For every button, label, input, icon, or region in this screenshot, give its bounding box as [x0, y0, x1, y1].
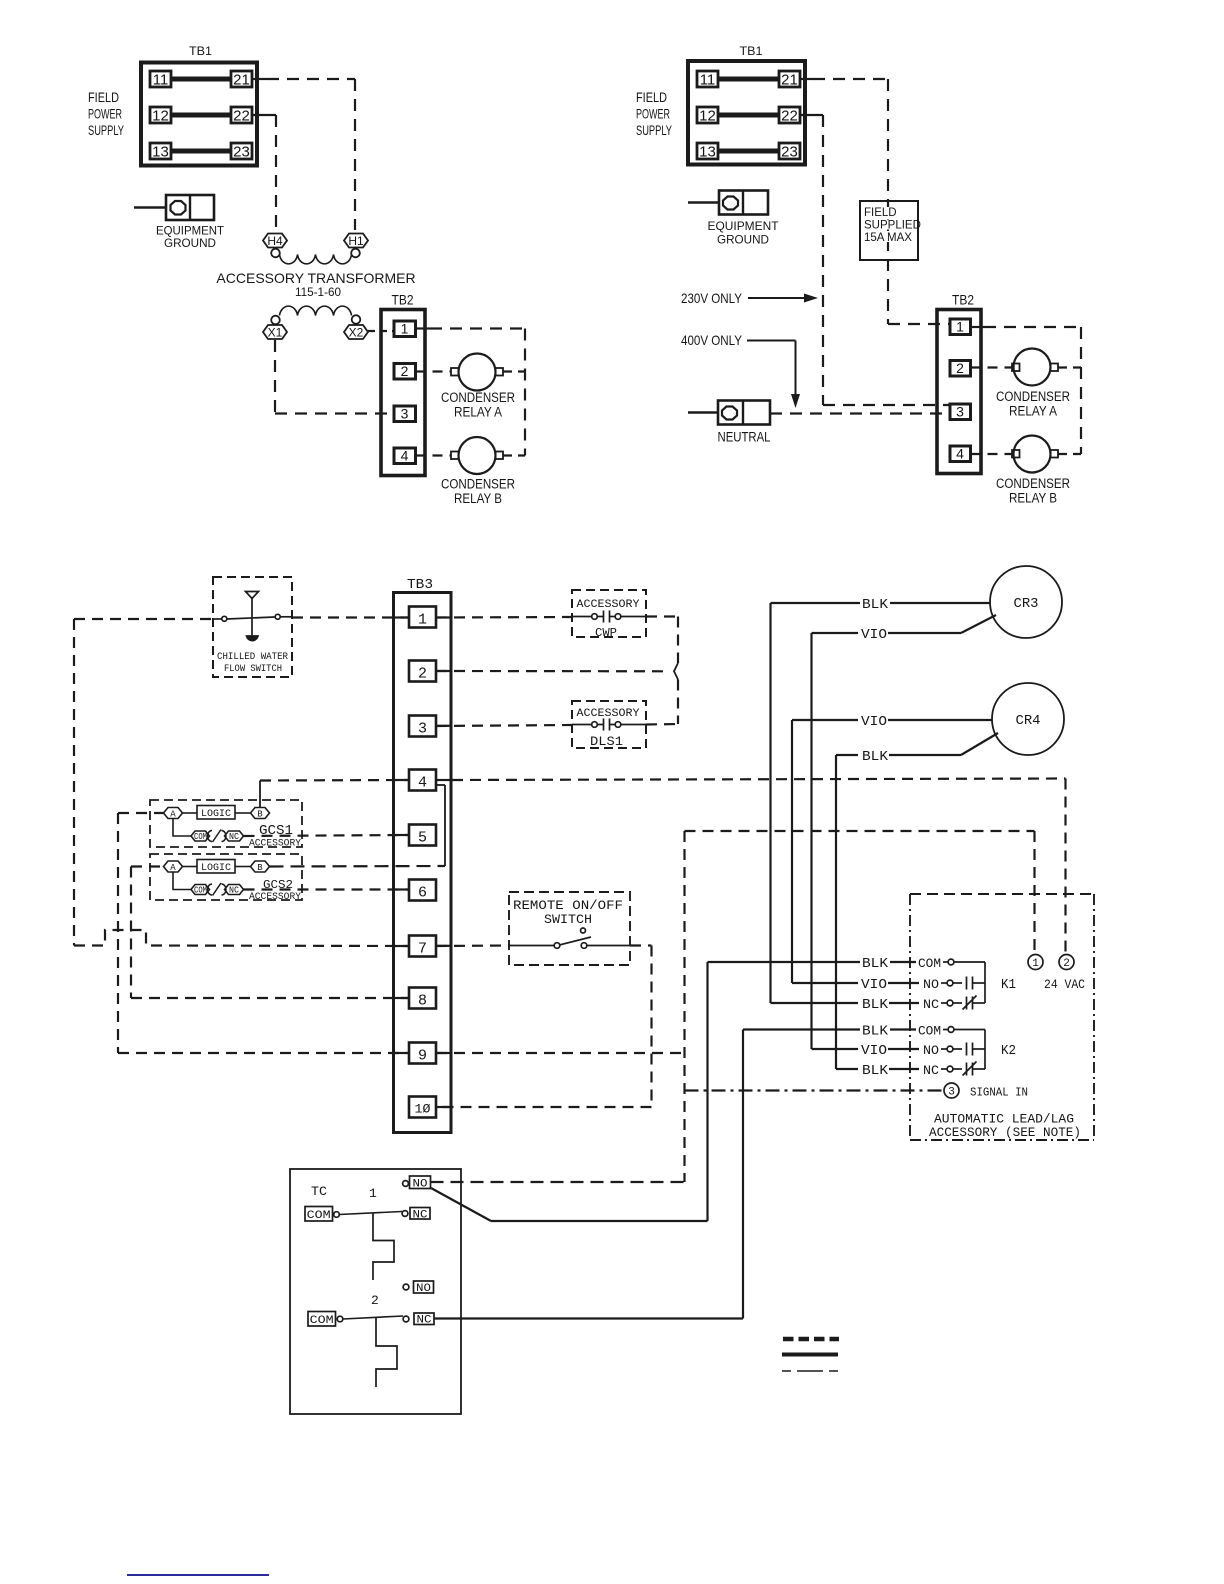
relay coil CR4: [992, 683, 1064, 755]
riser BLK CR3 to K1-NC: [769, 603, 771, 1003]
svg-text:NC: NC: [413, 1210, 428, 1222]
svg-text:22: 22: [233, 108, 250, 125]
riser GCS2-A to TB3-8 (dashed): [130, 867, 132, 999]
wire DLS1 right to brace bus (dashed): [646, 723, 678, 726]
wire TB2-4 to condenser relay B coil (right): [971, 453, 1013, 455]
legend heavy dashed line: [783, 1337, 839, 1342]
TC stage 2 heater meander: [376, 1318, 397, 1388]
wire GCS1 NC row to TB3-5 (dashed): [244, 835, 410, 836]
wire BLK to CR4: [836, 733, 998, 755]
label CONDENSER RELAY B (left): [441, 477, 515, 507]
TB1 right terminal 12: [697, 107, 718, 125]
svg-text:9: 9: [418, 1048, 427, 1065]
svg-text:15A MAX: 15A MAX: [864, 232, 912, 244]
transformer secondary terminal X2: [344, 315, 368, 339]
riser VIO CR4 to K1-NO: [791, 720, 793, 983]
svg-text:NC: NC: [229, 832, 240, 842]
riser TC1-NO to K1-COM (solid): [706, 962, 708, 1221]
TB2 right terminal 1: [950, 319, 971, 335]
chilled water flow switch symbol: [213, 592, 292, 641]
svg-text:VIO: VIO: [861, 1043, 887, 1059]
TB1 right bus bar 11-21: [718, 77, 779, 82]
transformer secondary winding: [280, 306, 352, 315]
accessory CWP contact: [572, 611, 646, 623]
TC stage 2 blade: [343, 1316, 403, 1319]
svg-text:115-1-60: 115-1-60: [295, 285, 341, 299]
svg-text:23: 23: [233, 144, 250, 161]
wire TB3-1 to accessory CWP (dashed): [436, 616, 572, 619]
svg-text:FIELD: FIELD: [864, 207, 897, 219]
TB2 left terminal 3: [394, 406, 416, 422]
svg-text:VIO: VIO: [861, 714, 887, 730]
GCS2 crossed contact: [208, 883, 227, 896]
wire relay A to bus: [503, 370, 525, 372]
svg-text:12: 12: [699, 108, 716, 125]
TB3 terminal 9: [409, 1043, 436, 1065]
TB2 left terminal 4: [394, 448, 416, 464]
accessory CWP enclosure (dashed box): [572, 590, 646, 637]
TB1 left terminal 22: [231, 107, 252, 125]
automatic lead/lag accessory enclosure (dash-dot box): [910, 894, 1094, 1140]
label GCS2 ACCESSORY: [249, 878, 301, 903]
svg-text:1: 1: [369, 1186, 377, 1201]
TB2 right terminal 4: [950, 446, 971, 462]
svg-text:2: 2: [956, 360, 964, 376]
wire TB1-21 to H1 (dashed): [252, 79, 355, 230]
svg-text:12: 12: [152, 108, 169, 125]
svg-text:TB1: TB1: [740, 46, 763, 58]
svg-text:2: 2: [371, 1293, 379, 1308]
svg-text:CR4: CR4: [1016, 713, 1041, 729]
terminal block TB1 (left): [141, 46, 257, 166]
TB2 left terminal 1: [394, 321, 416, 337]
GCS1 COM hexagon: [191, 831, 210, 842]
svg-text:BLK: BLK: [862, 997, 889, 1013]
riser TB3-9 / signal-in / TC-NO1 (dashed): [683, 831, 685, 1182]
label EQUIPMENT GROUND (right): [708, 219, 780, 247]
wire VIO to CR4: [792, 719, 992, 721]
svg-text:CR3: CR3: [1014, 596, 1039, 612]
riser VIO CR3 to K2-NO: [810, 633, 812, 1049]
svg-text:FIELD: FIELD: [636, 89, 667, 105]
TB1 bus bar 11-21: [171, 77, 231, 82]
TB2 right terminal 3: [950, 404, 971, 420]
svg-text:ACCESSORY: ACCESSORY: [249, 892, 301, 903]
svg-text:K2: K2: [1001, 1043, 1016, 1059]
GCS1 A to COM link: [173, 819, 191, 837]
svg-text:RELAY B: RELAY B: [1009, 491, 1057, 506]
equipment ground symbol (left): [134, 195, 214, 220]
svg-text:NO: NO: [923, 1043, 939, 1058]
TB1 left terminal 12: [150, 107, 171, 125]
wire TB3-9 right to riser (dashed): [436, 1052, 685, 1054]
svg-text:ACCESSORY (SEE NOTE): ACCESSORY (SEE NOTE): [929, 1125, 1081, 1140]
K2 NO row: [812, 1043, 986, 1060]
svg-text:NC: NC: [229, 886, 240, 896]
svg-text:BLK: BLK: [862, 749, 889, 765]
svg-text:3: 3: [956, 404, 964, 420]
svg-text:NO: NO: [413, 1179, 428, 1191]
label CHILLED WATER FLOW SWITCH: [217, 652, 288, 675]
hyperlink underline (blue): [127, 1574, 269, 1576]
riser GCS1-A to TB3-9 (dashed): [117, 813, 119, 1053]
K1 contact bracket: [984, 962, 986, 1003]
svg-text:B: B: [257, 810, 263, 820]
label AUTOMATIC LEAD/LAG ACCESSORY (SEE NOTE): [929, 1112, 1081, 1141]
signal-in terminal 3 (circled): [944, 1083, 959, 1099]
svg-text:3: 3: [418, 721, 427, 738]
svg-text:COM: COM: [194, 886, 207, 896]
GCS2 terminal A hexagon: [164, 861, 183, 873]
TB1 right terminal 11: [697, 71, 718, 89]
svg-text:ACCESSORY: ACCESSORY: [249, 839, 301, 850]
solid stubs inside TB3 channel: [394, 618, 452, 1108]
svg-text:SUPPLY: SUPPLY: [636, 122, 672, 138]
svg-text:ACCESSORY TRANSFORMER: ACCESSORY TRANSFORMER: [216, 270, 415, 286]
svg-text:BLK: BLK: [862, 956, 889, 972]
svg-text:X2: X2: [349, 326, 364, 340]
label CONDENSER RELAY B (right): [996, 476, 1070, 506]
signal-in wire (dash-dot): [685, 1089, 945, 1091]
GCS2 accessory enclosure (dash-dot box): [150, 854, 302, 900]
svg-text:A: A: [170, 863, 176, 873]
svg-text:7: 7: [418, 941, 427, 958]
TC stage 1 blade: [339, 1212, 402, 1215]
svg-text:1Ø: 1Ø: [415, 1102, 431, 1117]
svg-text:RELAY A: RELAY A: [1009, 404, 1057, 419]
K1 NO row: [792, 977, 985, 994]
GCS1 NC hexagon: [225, 831, 244, 842]
thermostat TC enclosure: [290, 1169, 461, 1414]
svg-text:COM: COM: [307, 1210, 331, 1222]
wire relay A right to bus: [1058, 366, 1081, 368]
svg-text:21: 21: [233, 72, 250, 89]
svg-text:5: 5: [418, 830, 427, 847]
K2 COM row: [743, 1024, 985, 1040]
24VAC terminal 2 (circled): [1059, 955, 1074, 971]
legend heavy solid line: [782, 1353, 838, 1357]
svg-text:REMOTE ON/OFF: REMOTE ON/OFF: [513, 898, 623, 913]
svg-text:TB2: TB2: [952, 293, 974, 308]
wire TB3-4 right to 24VAC terminal 2 (dashed): [436, 779, 1066, 955]
K2 NC row: [836, 1062, 985, 1080]
svg-text:COM: COM: [918, 1024, 941, 1039]
wire TB3-9 left (dashed): [118, 1052, 409, 1054]
TB1 bus bar 12-22: [171, 113, 231, 118]
svg-text:6: 6: [418, 885, 427, 902]
svg-text:FIELD: FIELD: [88, 89, 119, 105]
svg-text:SWITCH: SWITCH: [544, 912, 592, 927]
terminal block TB1 (right): [688, 46, 805, 165]
condenser relay B (right): [1012, 436, 1058, 473]
transformer primary terminal H1: [344, 234, 368, 258]
TB2 left terminal 2: [394, 363, 416, 379]
TC NO 1 terminal: [403, 1176, 431, 1191]
svg-text:11: 11: [700, 72, 716, 89]
wire TB2-2 to condenser relay A coil: [416, 370, 452, 372]
TB3 terminal 7: [409, 936, 436, 958]
svg-text:BLK: BLK: [862, 1063, 889, 1079]
TB3 terminal 2: [409, 661, 436, 683]
svg-text:4: 4: [418, 775, 427, 792]
GCS1 accessory enclosure (dash-dot box): [150, 800, 302, 847]
wire TC1-NO to signal riser (dashed): [431, 1181, 685, 1183]
wire TB2-1 right to bus (dashed): [971, 326, 1082, 328]
svg-text:11: 11: [153, 72, 169, 89]
svg-text:NC: NC: [923, 997, 939, 1012]
svg-text:CWP: CWP: [595, 626, 617, 640]
label REMOTE ON/OFF SWITCH: [513, 898, 623, 927]
label ACCESSORY CWP: [577, 599, 640, 640]
svg-text:GROUND: GROUND: [717, 233, 769, 247]
far-left riser wire (dashed): [73, 619, 75, 946]
svg-text:COM: COM: [310, 1315, 334, 1327]
TC stage 1 heater meander: [373, 1213, 394, 1281]
TB1 right terminal 13: [697, 143, 718, 161]
svg-text:4: 4: [956, 446, 964, 462]
svg-text:CONDENSER: CONDENSER: [996, 476, 1070, 491]
wire TB3-4 left to GCS1-B (dashed): [260, 779, 409, 782]
svg-text:COM: COM: [194, 832, 207, 842]
riser BLK CR4 to K2-NC: [835, 755, 837, 1069]
TB1 right bus bar 13-23: [718, 149, 779, 154]
chilled water flow switch enclosure (dashed box): [213, 577, 292, 677]
TC COM 2 terminal: [308, 1312, 343, 1328]
K2 contact bracket: [984, 1030, 986, 1070]
GCS1 crossed contact: [208, 830, 227, 843]
TB3 terminal 5: [409, 825, 436, 847]
wire GCS2-B to TB3-4 via inner channel (dashed): [270, 785, 446, 867]
wire TC2-NC to K2-COM (solid): [434, 1317, 743, 1319]
transformer secondary terminal X1: [263, 316, 287, 340]
TB3 terminal 8: [409, 988, 436, 1010]
svg-text:2: 2: [401, 363, 409, 379]
svg-text:B: B: [257, 863, 263, 873]
svg-text:COM: COM: [918, 956, 941, 971]
svg-text:13: 13: [699, 144, 716, 161]
TB1 left terminal 21: [231, 71, 252, 89]
svg-text:CONDENSER: CONDENSER: [441, 390, 515, 405]
label ACCESSORY DLS1: [577, 708, 640, 749]
fuse box FIELD SUPPLIED 15A MAX: [860, 201, 921, 260]
accessory DLS1 contact: [572, 719, 646, 731]
dashed bus right of TB2 (left diagram): [524, 329, 526, 456]
svg-text:RELAY A: RELAY A: [454, 405, 502, 420]
TB1 right terminal 21: [779, 71, 800, 89]
label EQUIPMENT GROUND (left): [156, 224, 225, 251]
svg-text:TB3: TB3: [407, 577, 433, 593]
svg-text:CONDENSER: CONDENSER: [441, 477, 515, 492]
right parallel bus with brace: [674, 617, 678, 725]
GCS1 LOGIC box: [183, 806, 251, 821]
TB3 terminal 10: [409, 1097, 436, 1118]
TB3 terminal 3: [409, 716, 436, 738]
24VAC terminal 1 (circled): [1028, 955, 1043, 971]
svg-text:DLS1: DLS1: [590, 734, 623, 749]
wire riser to TB3-7 with crossover hump (dashed): [74, 930, 409, 946]
GCS2 LOGIC box: [183, 860, 251, 875]
wire neutral to TB2-3 (dashed): [770, 412, 950, 414]
svg-text:SUPPLY: SUPPLY: [88, 122, 124, 138]
svg-text:EQUIPMENT: EQUIPMENT: [708, 219, 780, 233]
transformer primary winding: [280, 255, 352, 264]
wire TB1-22 to H4 (dashed): [252, 115, 276, 230]
wire TB1-22 right down (dashed, 230V): [800, 115, 950, 405]
label GCS1 ACCESSORY: [249, 823, 301, 850]
GCS2 terminal B hexagon: [251, 861, 270, 873]
svg-text:TB2: TB2: [392, 293, 414, 308]
svg-text:ACCESSORY: ACCESSORY: [577, 599, 640, 611]
wire BLK to CR3: [771, 602, 991, 604]
svg-text:TC: TC: [311, 1184, 327, 1199]
GCS1 terminal B hexagon: [251, 808, 270, 820]
TB1 left terminal 13: [150, 143, 171, 161]
label ACCESSORY TRANSFORMER 115-1-60: [216, 270, 415, 299]
svg-text:1: 1: [418, 612, 427, 629]
svg-text:POWER: POWER: [88, 106, 122, 122]
label FIELD POWER SUPPLY (right): [636, 89, 672, 138]
svg-text:LOGIC: LOGIC: [201, 809, 231, 820]
wire TB3-2 to brace (dashed): [436, 670, 669, 672]
svg-text:NO: NO: [923, 977, 939, 992]
condenser relay A (left): [451, 354, 503, 391]
TC NC 1 terminal: [402, 1208, 430, 1222]
TC NO 2 terminal: [403, 1281, 433, 1295]
terminal block TB2 (right): [937, 293, 981, 474]
label 230V ONLY with arrow: [681, 290, 818, 306]
label 400V ONLY with bent arrow: [681, 332, 800, 408]
label CONDENSER RELAY A (right): [996, 389, 1070, 419]
svg-text:K1: K1: [1001, 977, 1016, 993]
wire relay B right to bus: [1058, 453, 1081, 455]
TB3 terminal 6: [409, 880, 436, 902]
TB1 bus bar 13-23: [171, 149, 231, 154]
svg-text:1: 1: [1032, 958, 1039, 970]
wire GCS2 NC row to TB3-6 (dashed): [244, 888, 410, 890]
svg-text:NC: NC: [417, 1315, 432, 1327]
svg-text:SUPPLIED: SUPPLIED: [864, 220, 921, 232]
GCS1 terminal A hexagon: [164, 808, 183, 820]
svg-text:CHILLED WATER: CHILLED WATER: [217, 652, 288, 663]
svg-text:22: 22: [781, 108, 798, 125]
equipment ground symbol (right): [688, 191, 768, 215]
svg-text:SIGNAL IN: SIGNAL IN: [970, 1086, 1028, 1100]
GCS2 COM hexagon: [191, 885, 210, 896]
svg-text:NEUTRAL: NEUTRAL: [718, 430, 771, 445]
relay coil CR3: [990, 566, 1062, 638]
wire TB3-7 to remote switch (dashed): [436, 944, 510, 947]
wire X1 to TB2-3 (dashed): [275, 340, 394, 414]
GCS2 NC hexagon: [225, 885, 244, 896]
svg-text:230V ONLY: 230V ONLY: [681, 290, 743, 306]
svg-text:BLK: BLK: [862, 597, 889, 613]
dashed bus right of TB2 (right diagram): [1080, 327, 1082, 454]
svg-text:3: 3: [401, 406, 409, 422]
svg-text:NC: NC: [923, 1063, 939, 1078]
condenser relay A (right): [1012, 349, 1058, 386]
svg-text:RELAY B: RELAY B: [454, 491, 502, 506]
TB3 terminal 4: [409, 770, 436, 792]
svg-text:NO: NO: [416, 1283, 431, 1295]
wire TB2-1 to right bus (dashed): [416, 327, 526, 329]
wire VIO to CR3: [812, 615, 997, 633]
svg-text:POWER: POWER: [636, 106, 670, 122]
svg-text:VIO: VIO: [861, 627, 887, 643]
neutral terminal symbol: [688, 401, 770, 425]
wire TB2-4 to condenser relay B coil: [416, 454, 452, 456]
wire TB3-8 left (dashed): [131, 997, 409, 999]
K1 NC row: [771, 996, 986, 1014]
svg-text:23: 23: [781, 144, 798, 161]
TB2 right terminal 2: [950, 360, 971, 376]
terminal block TB3: [394, 577, 452, 1133]
TB1 right bus bar 12-22: [718, 113, 779, 118]
wire TB2-2 to condenser relay A coil (right): [971, 366, 1013, 368]
svg-text:4: 4: [401, 448, 409, 464]
svg-text:A: A: [170, 810, 176, 820]
svg-text:H1: H1: [348, 234, 364, 248]
label CONDENSER RELAY A (left): [441, 390, 515, 420]
wire signal net to 24VAC terminal 1 (dashed): [685, 831, 1035, 955]
wire GCS1-A left (dashed): [118, 812, 164, 814]
svg-text:TB1: TB1: [189, 46, 212, 58]
wire TB3-1 to flow switch (dashed): [292, 616, 409, 618]
svg-text:24 VAC: 24 VAC: [1044, 977, 1085, 992]
svg-text:3: 3: [948, 1087, 955, 1099]
wire TB1-21 right down to TB2-1 (dashed): [800, 79, 950, 324]
svg-text:X1: X1: [268, 326, 283, 340]
svg-text:2: 2: [1063, 958, 1070, 970]
svg-text:CONDENSER: CONDENSER: [996, 389, 1070, 404]
svg-text:LOGIC: LOGIC: [201, 863, 231, 874]
svg-text:8: 8: [418, 993, 427, 1010]
label FIELD POWER SUPPLY (left): [88, 89, 124, 138]
wire flow switch left to far-left riser (dashed): [74, 618, 213, 620]
wire relay B to bus: [503, 454, 525, 456]
wire TC1-NO to K1-COM (solid): [431, 1188, 708, 1221]
terminal block TB2 (left): [381, 293, 425, 476]
TB1 right terminal 23: [779, 143, 800, 161]
svg-text:1: 1: [401, 321, 409, 337]
legend thin dash-dot line: [782, 1370, 838, 1372]
wire TB3-3 to DLS1 (dashed): [436, 725, 572, 726]
svg-text:2: 2: [418, 666, 427, 683]
wire GCS2-A left (dashed): [131, 865, 164, 867]
GCS2 A to COM link: [173, 872, 191, 890]
TC NC 2 terminal: [403, 1313, 434, 1327]
TB1 right terminal 22: [779, 107, 800, 125]
TB3 terminal 1: [409, 607, 436, 629]
svg-text:21: 21: [781, 72, 798, 89]
transformer primary terminal H4: [263, 234, 287, 258]
wire X2 to TB2-1: [368, 330, 394, 332]
svg-text:1: 1: [956, 319, 964, 335]
svg-text:BLK: BLK: [862, 1024, 889, 1040]
accessory DLS1 enclosure (dashed box): [572, 701, 646, 748]
svg-text:VIO: VIO: [861, 977, 887, 993]
TC COM 1 terminal: [305, 1207, 339, 1223]
svg-text:H4: H4: [267, 234, 283, 248]
TB1 left terminal 23: [231, 143, 252, 161]
remote switch contacts: [509, 928, 630, 948]
svg-text:13: 13: [152, 144, 169, 161]
remote on/off switch enclosure (dashed box): [509, 892, 630, 965]
TB1 left terminal 11: [150, 71, 171, 89]
svg-text:400V ONLY: 400V ONLY: [681, 332, 743, 348]
condenser relay B (left): [451, 437, 503, 474]
riser TC2-NC to K2-COM (solid): [742, 1030, 744, 1319]
wire CWP right to brace bus (dashed): [646, 615, 678, 617]
